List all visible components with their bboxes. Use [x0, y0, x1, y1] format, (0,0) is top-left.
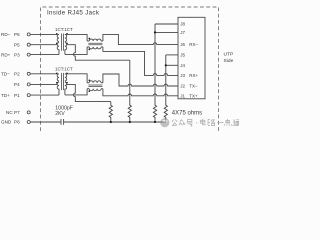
svg-text:RD+: RD+ — [1, 52, 11, 57]
secondary winding — [65, 74, 67, 81]
wire P1 to T2 primary bottom — [30, 94, 59, 96]
wire CH1 top output to J6 RX- (hop over V1) — [103, 34, 178, 44]
svg-text:J5: J5 — [180, 53, 185, 58]
watermark logo — [160, 118, 169, 127]
svg-text:RX−: RX− — [189, 42, 198, 47]
wire CH1 bottom output to J3 RX+ (hops over V1,V2) — [103, 47, 178, 76]
svg-text:TD+: TD+ — [1, 93, 10, 98]
resistor R3 75ohm (J7/J8 termination) — [153, 105, 156, 122]
dashed enclosure boundary (Inside RJ45 Jack) — [41, 7, 219, 131]
RJ45 UTP connector block — [178, 17, 205, 99]
svg-text:NC: NC — [6, 110, 13, 115]
junction dot J7/J8 tie — [154, 31, 156, 33]
svg-text:4X75 ohms: 4X75 ohms — [172, 111, 202, 117]
choke top winding — [87, 82, 89, 84]
svg-text:J2: J2 — [180, 84, 185, 89]
svg-text:UTP: UTP — [224, 52, 234, 58]
core — [61, 73, 63, 90]
svg-text:1CT:1CT: 1CT:1CT — [55, 27, 73, 32]
termination vertical V1 (J7/J8 tie) down to R3 — [154, 24, 156, 105]
wire P5 to T1 primary center tap — [30, 44, 57, 46]
svg-text:P8: P8 — [14, 120, 20, 125]
wire J4 stub — [166, 64, 178, 66]
resistor R4 75ohm (J4/J5 termination) — [164, 105, 167, 122]
choke top winding — [87, 40, 89, 42]
choke core — [88, 43, 102, 45]
primary winding — [57, 34, 59, 41]
wire P6 to T1 primary top — [30, 33, 57, 35]
capacitor C1 1000pF 2KV — [61, 119, 64, 125]
svg-text:Inside RJ45 Jack: Inside RJ45 Jack — [47, 10, 100, 17]
svg-text:J4: J4 — [180, 63, 185, 68]
svg-text:1CT:1CT: 1CT:1CT — [55, 67, 73, 72]
svg-text:P6: P6 — [14, 32, 20, 37]
wire T2 secondary bottom to CH2 bottom-left — [65, 89, 87, 95]
svg-text:GND: GND — [1, 120, 12, 125]
choke bottom winding — [87, 46, 89, 48]
wire J8 stub — [155, 23, 178, 25]
wire J5 stub — [166, 54, 178, 56]
svg-text:P5: P5 — [14, 42, 20, 47]
choke phase dots — [88, 38, 90, 40]
svg-text:P1: P1 — [14, 93, 20, 98]
wire T1 secondary top to CH1 top-left — [65, 34, 87, 41]
choke core — [88, 85, 102, 87]
svg-text:TX−: TX− — [189, 84, 198, 89]
svg-text:J3: J3 — [180, 73, 185, 78]
wire P4 to T2 primary center tap — [30, 83, 57, 85]
wire T2 center tap staircase to R1 (hop over secondary bottom wire) — [67, 84, 111, 101]
wire T1 center tap staircase to R2 column (hop over secondary bottom wire) — [67, 45, 130, 61]
svg-text:J8: J8 — [180, 22, 185, 27]
wire P8 GND to capacitor — [30, 121, 61, 123]
resistor R1 75ohm (T2 center tap termination) — [109, 102, 112, 122]
svg-text:P3: P3 — [14, 52, 20, 57]
wire CH2 top output to J2 TX- (hops over R2,V1,V2 columns) — [103, 74, 178, 86]
svg-text:P4: P4 — [14, 82, 20, 87]
junction dot rail R3 — [154, 121, 156, 123]
svg-text:Side: Side — [224, 58, 234, 64]
core — [61, 34, 63, 51]
svg-text:TD−: TD− — [1, 72, 10, 77]
junction dot rail R2 — [129, 121, 131, 123]
svg-text:P2: P2 — [14, 72, 20, 77]
svg-text:J7: J7 — [180, 30, 185, 35]
wire T2 secondary top to CH2 top-left — [65, 74, 87, 83]
wire P2 to T2 primary top — [30, 73, 57, 75]
choke bottom winding — [87, 88, 89, 90]
watermark text (vector strokes imitating CJK) — [172, 119, 239, 126]
svg-text:J6: J6 — [180, 42, 185, 47]
svg-text:J1: J1 — [180, 93, 185, 98]
junction dot J5/J4 tie — [165, 64, 167, 66]
phase dots — [56, 33, 58, 35]
svg-text:P7: P7 — [14, 110, 20, 115]
ground rail from capacitor to resistors — [64, 121, 166, 123]
svg-text:RD−: RD− — [1, 32, 11, 37]
secondary winding — [65, 34, 67, 41]
wire T1 secondary bottom to CH1 bottom-left — [65, 47, 87, 55]
svg-text:TX+: TX+ — [189, 93, 198, 98]
primary winding — [57, 74, 59, 81]
termination vertical V2 (J5/J4 tie) down to R4 — [165, 55, 167, 105]
resistor R2 75ohm (T1 center tap termination) — [128, 105, 131, 122]
junction dot rail R1 — [110, 121, 112, 123]
wire CH2 bottom output to J1 TX+ (hops over R2,V1,V2 columns) — [103, 89, 178, 96]
choke phase dots — [88, 79, 90, 81]
svg-text:2KV: 2KV — [55, 111, 65, 117]
wire P3 to T1 primary bottom — [30, 54, 59, 56]
wire T1 center tap vertical down to R2 — [129, 60, 131, 105]
phase dots — [56, 72, 58, 74]
svg-text:RX+: RX+ — [189, 73, 198, 78]
wire J7 stub — [155, 31, 178, 33]
